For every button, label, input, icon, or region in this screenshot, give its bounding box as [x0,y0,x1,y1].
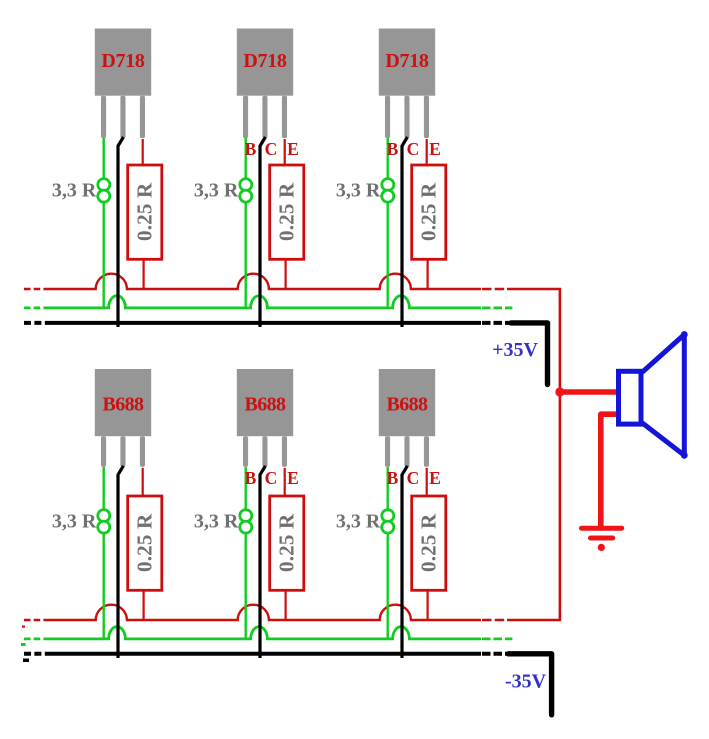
svg-text:3,3 R: 3,3 R [52,179,97,201]
svg-text:B688: B688 [103,393,145,415]
svg-text:E: E [429,139,441,159]
svg-text:0.25 R: 0.25 R [275,182,299,241]
svg-text:C: C [407,139,420,159]
svg-text:D718: D718 [385,50,429,72]
svg-text:E: E [287,468,299,488]
svg-text:3,3 R: 3,3 R [194,510,239,532]
svg-text:C: C [265,139,278,159]
svg-text:0.25 R: 0.25 R [133,513,157,572]
svg-text:+35V: +35V [492,339,538,361]
svg-text:D718: D718 [243,50,287,72]
svg-text:0.25 R: 0.25 R [133,182,157,241]
svg-text:3,3 R: 3,3 R [194,179,239,201]
svg-text:C: C [407,468,420,488]
svg-text:E: E [287,139,299,159]
svg-text:-35V: -35V [505,671,547,693]
svg-text:B: B [245,139,257,159]
svg-text:3,3 R: 3,3 R [336,179,381,201]
svg-text:B: B [245,468,257,488]
svg-text:C: C [265,468,278,488]
svg-text:B: B [387,468,399,488]
svg-text:0.25 R: 0.25 R [275,513,299,572]
svg-text:0.25 R: 0.25 R [417,182,441,241]
svg-text:E: E [429,468,441,488]
svg-text:B: B [387,139,399,159]
svg-text:D718: D718 [101,50,145,72]
svg-text:3,3 R: 3,3 R [52,510,97,532]
svg-text:B688: B688 [387,393,429,415]
svg-text:B688: B688 [245,393,287,415]
svg-text:3,3 R: 3,3 R [336,510,381,532]
svg-text:0.25 R: 0.25 R [417,513,441,572]
